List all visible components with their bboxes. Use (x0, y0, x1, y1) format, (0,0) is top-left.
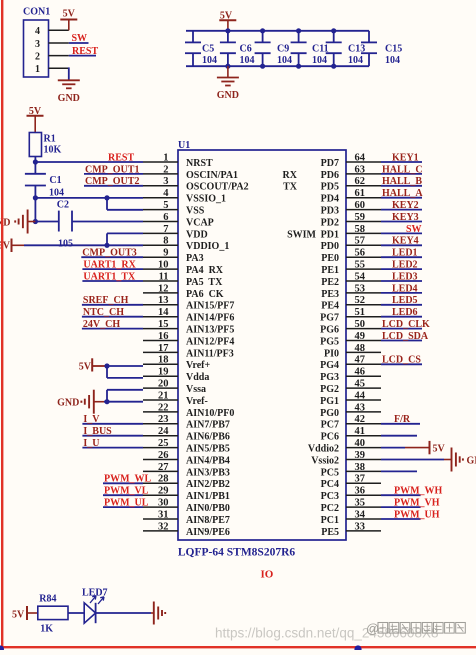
svg-text:NRST: NRST (186, 158, 213, 169)
svg-text:GND: GND (57, 398, 79, 409)
svg-text:17: 17 (158, 343, 169, 354)
svg-text:21: 21 (158, 390, 169, 401)
U1 pin 62 PD5 (321, 176, 381, 193)
wire LED7 to ground (96, 612, 151, 614)
ground GND at LED row (151, 602, 165, 625)
svg-text:VSS: VSS (186, 206, 205, 217)
U1 pin 61 PD4 (321, 188, 381, 205)
svg-text:C2: C2 (57, 200, 69, 211)
wire VSS net to U1 pin 4 (35, 197, 143, 199)
power 5V at capacitor bank (219, 11, 236, 31)
svg-text:PG5: PG5 (320, 336, 339, 347)
svg-text:R1: R1 (44, 134, 56, 145)
svg-text:C5: C5 (202, 44, 214, 55)
svg-text:NTC_CH: NTC_CH (83, 307, 124, 318)
U1 pin 39 Vssio2 (311, 450, 381, 467)
svg-text:LCD_CLK: LCD_CLK (382, 319, 430, 330)
svg-text:I_BUS: I_BUS (83, 426, 112, 437)
svg-text:LED6: LED6 (392, 307, 418, 318)
U1 pin 40 Vddio2 (308, 438, 381, 455)
U1 pin 25 AIN5/PB5 (143, 438, 230, 455)
svg-text:9: 9 (163, 248, 168, 259)
svg-text:22: 22 (158, 402, 169, 413)
wire net NTC_CH to U1 pin 14 (82, 316, 143, 318)
svg-text:31: 31 (158, 509, 169, 520)
wire from U1 pin 41 (381, 435, 417, 437)
svg-text:57: 57 (355, 236, 366, 247)
svg-text:HALL_A: HALL_A (382, 188, 423, 199)
wire net SW from CON1 pin 3 (69, 42, 89, 44)
svg-text:GND: GND (467, 456, 476, 467)
wire net KEY1 from U1 pin 64 (381, 161, 422, 163)
U1 pin 46 PG3 (320, 367, 381, 384)
U1 pin 13 AIN15/PF7 (143, 295, 234, 312)
svg-text:2: 2 (35, 51, 40, 62)
svg-text:LED4: LED4 (392, 283, 418, 294)
U1 pin 17 AIN11/PF3 (143, 343, 234, 360)
svg-text:C9: C9 (277, 44, 289, 55)
svg-text:LCD_SDA: LCD_SDA (382, 331, 429, 342)
power 5V at U1 pin 40 Vddio2 (381, 441, 446, 455)
svg-text:PD0: PD0 (321, 241, 339, 252)
svg-text:Vddio2: Vddio2 (308, 444, 339, 455)
wire net SREF_CH to U1 pin 13 (82, 304, 143, 306)
wire R1 to node REST (34, 157, 36, 163)
svg-text:PD2: PD2 (321, 217, 339, 228)
svg-text:TX: TX (283, 182, 298, 193)
svg-text:33: 33 (355, 521, 366, 532)
svg-text:SREF_CH: SREF_CH (83, 295, 129, 306)
svg-text:53: 53 (355, 283, 366, 294)
wire net LCD_CLK from U1 pin 50 (381, 328, 422, 330)
decorative watermark juejin (366, 621, 465, 636)
svg-text:I_U: I_U (83, 438, 99, 449)
svg-text:VDD: VDD (186, 229, 208, 240)
U1 pin 33 PE5 (321, 521, 381, 538)
svg-text:54: 54 (355, 271, 366, 282)
U1 pin 20 Vssa (143, 379, 206, 396)
power 5V above R1 (27, 106, 44, 132)
svg-text:Vdda: Vdda (186, 372, 209, 383)
U1 pin 63 PD6 (321, 164, 381, 181)
svg-text:PG1: PG1 (320, 396, 339, 407)
svg-text:C15: C15 (385, 44, 402, 55)
wire net LED2 from U1 pin 55 (381, 268, 422, 270)
capacitor C13 104 (326, 31, 366, 66)
U1 pin 7 VDD (143, 224, 208, 241)
svg-text:Vssio2: Vssio2 (311, 455, 339, 466)
svg-text:59: 59 (355, 212, 366, 223)
sheet border bottom edge (0, 646, 476, 648)
wire net HALL_A from U1 pin 61 (381, 197, 422, 199)
svg-text:PG2: PG2 (320, 384, 339, 395)
U1 pin 34 PC1 (321, 509, 381, 526)
svg-text:PC5: PC5 (321, 467, 339, 478)
svg-text:104: 104 (277, 55, 292, 66)
svg-text:I_V: I_V (83, 414, 100, 425)
wire top rail of capacitor bank (186, 30, 369, 32)
wire bottom rail of capacitor bank (186, 65, 369, 67)
svg-text:AIN0/PB0: AIN0/PB0 (186, 503, 230, 514)
svg-text:Vref+: Vref+ (186, 360, 211, 371)
svg-text:1: 1 (35, 64, 40, 75)
wire net LED1 from U1 pin 56 (381, 256, 422, 258)
svg-text:5V: 5V (63, 9, 76, 20)
svg-text:VSSIO_1: VSSIO_1 (186, 194, 226, 205)
svg-text:PA3: PA3 (186, 253, 204, 264)
svg-text:25: 25 (158, 438, 169, 449)
U1 pin 47 PG4 (320, 355, 381, 372)
svg-text:RX: RX (283, 170, 298, 181)
svg-text:KEY2: KEY2 (392, 200, 419, 211)
svg-text:Vssa: Vssa (186, 384, 206, 395)
U1 pin 26 AIN4/PB4 (143, 450, 230, 467)
U1 pin 50 PG6 (320, 319, 381, 336)
wire net UART1_RX to U1 pin 10 (82, 268, 143, 270)
wire net CMP_OUT1 to U1 pin 2 (84, 173, 143, 175)
wire GND to U1 pin 21 (104, 401, 143, 403)
U1 pin 64 PD7 (321, 152, 381, 169)
svg-text:104: 104 (348, 55, 363, 66)
U1 pin 45 PG2 (320, 379, 381, 396)
svg-text:GND: GND (217, 90, 239, 101)
wire net PWM_WL to U1 pin 28 (103, 482, 143, 484)
resistor R1 10K (29, 133, 61, 157)
svg-text:PA5 TX: PA5 TX (186, 277, 223, 288)
U1 pin 21 Vref- (143, 390, 208, 407)
wire net LED4 from U1 pin 53 (381, 292, 422, 294)
U1 pin 24 AIN6/PB6 (143, 426, 230, 443)
svg-text:AIN14/PF6: AIN14/PF6 (186, 313, 234, 324)
svg-text:GND: GND (58, 93, 80, 104)
U1 pin 22 AIN10/PF0 (143, 402, 234, 419)
wire net KEY3 from U1 pin 59 (381, 221, 422, 223)
svg-text:52: 52 (355, 295, 366, 306)
svg-text:UART1_RX: UART1_RX (83, 260, 136, 271)
wire branch to U1 pin 19 Vdda (107, 366, 143, 378)
svg-text:5V: 5V (433, 444, 446, 455)
svg-text:24V_CH: 24V_CH (83, 319, 120, 330)
power 5V at LED row (12, 606, 38, 621)
wire net I_V to U1 pin 23 (82, 423, 143, 425)
wire net UART1_TX to U1 pin 11 (82, 280, 143, 282)
svg-text:Vref-: Vref- (186, 396, 208, 407)
svg-text:KEY3: KEY3 (392, 212, 419, 223)
U1 pin 60 PD3 (321, 200, 381, 217)
U1 pin 8 VDDIO_1 (143, 236, 229, 253)
svg-text:C1: C1 (49, 175, 61, 186)
svg-text:PI0: PI0 (324, 348, 339, 359)
wire net CMP_OUT3 to U1 pin 9 (81, 256, 143, 258)
wire net CMP_OUT2 to U1 pin 3 (84, 185, 143, 187)
svg-text:3: 3 (35, 39, 40, 50)
U1 pin 19 Vdda (143, 367, 209, 384)
svg-text:61: 61 (355, 188, 366, 199)
U1 pin 58 PD1 (321, 224, 381, 241)
svg-text:PG4: PG4 (320, 360, 339, 371)
svg-text:10K: 10K (44, 145, 62, 156)
svg-text:15: 15 (158, 319, 169, 330)
svg-text:CMP_OUT3: CMP_OUT3 (82, 248, 136, 259)
svg-text:27: 27 (158, 462, 169, 473)
svg-text:46: 46 (355, 367, 366, 378)
U1 pin 15 AIN13/PF5 (143, 319, 234, 336)
svg-text:HALL_C: HALL_C (382, 164, 423, 175)
svg-text:PG7: PG7 (320, 313, 339, 324)
svg-text:KEY1: KEY1 (392, 152, 419, 163)
svg-text:8: 8 (163, 236, 168, 247)
power 5V at left edge (0, 239, 24, 253)
svg-text:PA4 RX: PA4 RX (186, 265, 224, 276)
svg-text:48: 48 (355, 343, 366, 354)
svg-text:AIN10/PF0: AIN10/PF0 (186, 408, 234, 419)
svg-text:3: 3 (163, 176, 168, 187)
U1 pin 9 PA3 (143, 248, 204, 265)
svg-text:LED5: LED5 (392, 295, 418, 306)
capacitor C6 104 (220, 31, 255, 66)
svg-text:PE2: PE2 (321, 277, 339, 288)
svg-text:PG6: PG6 (320, 325, 339, 336)
svg-text:32: 32 (158, 521, 169, 532)
capacitor C2 105 (57, 200, 73, 250)
svg-text:7: 7 (163, 224, 168, 235)
capacitor C5 104 (185, 31, 217, 66)
svg-text:37: 37 (355, 474, 366, 485)
svg-text:PWM_UH: PWM_UH (394, 509, 440, 520)
U1 pin 16 AIN12/PF4 (143, 331, 234, 348)
svg-text:64: 64 (355, 152, 366, 163)
U1 pin 38 PC5 (321, 462, 381, 479)
wire net LCD_CS from U1 pin 47 (381, 363, 422, 365)
svg-text:11: 11 (159, 271, 169, 282)
svg-text:PE3: PE3 (321, 289, 339, 300)
svg-text:35: 35 (355, 498, 366, 509)
svg-text:KEY4: KEY4 (392, 236, 419, 247)
svg-text:20: 20 (158, 379, 169, 390)
wire net HALL_C from U1 pin 63 (381, 173, 422, 175)
svg-text:PE4: PE4 (321, 301, 339, 312)
svg-text:104: 104 (312, 55, 327, 66)
wire net LED3 from U1 pin 54 (381, 280, 422, 282)
svg-text:IO: IO (261, 568, 274, 580)
U1 pin 18 Vref+ (143, 355, 211, 372)
svg-text:36: 36 (355, 486, 366, 497)
svg-text:PD1: PD1 (321, 229, 339, 240)
svg-text:CON1: CON1 (23, 7, 50, 18)
svg-text:2: 2 (163, 164, 168, 175)
svg-text:50: 50 (355, 319, 366, 330)
svg-text:41: 41 (355, 426, 366, 437)
U1 pin 5 VSS (143, 200, 205, 217)
wire net PWM_WH from U1 pin 36 (381, 494, 421, 496)
svg-text:PWM_WL: PWM_WL (104, 474, 152, 485)
svg-text:26: 26 (158, 450, 169, 461)
wire net I_U to U1 pin 25 (82, 447, 143, 449)
U1 pin 12 PA6 CK (143, 283, 224, 300)
U1 pin 32 AIN9/PE6 (143, 521, 230, 538)
svg-text:62: 62 (355, 176, 366, 187)
ground GND at U1 pin 21 Vref- (57, 390, 107, 414)
power 5V at U1 pin 18 Vref+ (79, 358, 105, 372)
svg-text:PC4: PC4 (321, 479, 339, 490)
svg-text:42: 42 (355, 414, 366, 425)
U1 pin 10 PA4 RX (143, 260, 224, 277)
U1 pin 30 AIN0/PB0 (143, 498, 230, 515)
capacitor C15 104 (361, 31, 402, 66)
wire R84 to LED7 (68, 612, 84, 614)
svg-text:LCD_CS: LCD_CS (382, 355, 421, 366)
wire net REST from CON1 pin 2 (69, 55, 96, 57)
svg-text:REST: REST (108, 152, 134, 163)
svg-text:PC1: PC1 (321, 515, 339, 526)
node ground junction (33, 219, 38, 224)
wire 5V to U1 pin 18 (105, 365, 144, 367)
svg-text:PG3: PG3 (320, 372, 339, 383)
svg-text:5V: 5V (12, 610, 25, 621)
svg-text:AIN2/PB2: AIN2/PB2 (186, 479, 230, 490)
wire C2 to U1 pin 6 VCAP (72, 221, 143, 223)
svg-text:F/R: F/R (394, 414, 411, 425)
svg-text:30: 30 (158, 498, 169, 509)
wire net I_BUS to U1 pin 24 (82, 435, 143, 437)
svg-text:PD4: PD4 (321, 194, 339, 205)
wire C1 node down to ground node (34, 198, 36, 222)
U1 pin 3 OSCOUT/PA2 (143, 176, 249, 193)
svg-text:10: 10 (158, 260, 169, 271)
power 5V at CON1 pin 4 (60, 9, 77, 31)
svg-text:29: 29 (158, 486, 169, 497)
svg-text:PC6: PC6 (321, 432, 339, 443)
capacitor C9 104 (255, 31, 292, 66)
svg-text:45: 45 (355, 379, 366, 390)
svg-text:39: 39 (355, 450, 366, 461)
wire net LED5 from U1 pin 52 (381, 304, 422, 306)
U1 pin 51 PG7 (320, 307, 381, 324)
wire ground node to C2 (35, 221, 58, 223)
U1 pin 43 PG0 (320, 402, 381, 419)
svg-text:AIN13/PF5: AIN13/PF5 (186, 325, 234, 336)
ground GND at CON1 (58, 80, 80, 104)
U1 pin 41 PC6 (321, 426, 381, 443)
ground GND at U1 pin 39 Vssio2 (381, 448, 476, 472)
svg-text:44: 44 (355, 390, 366, 401)
resistor R84 1K (38, 594, 68, 635)
svg-text:34: 34 (355, 509, 366, 520)
U1 pin 55 PE1 (321, 260, 381, 277)
svg-text:LED1: LED1 (392, 248, 418, 259)
svg-text:OSCIN/PA1: OSCIN/PA1 (186, 170, 238, 181)
svg-text:AIN6/PB6: AIN6/PB6 (186, 432, 230, 443)
svg-text:AIN3/PB3: AIN3/PB3 (186, 467, 230, 478)
junction dot bottom left corner (0, 646, 4, 653)
connector CON1 (23, 7, 69, 78)
svg-text:C6: C6 (240, 44, 252, 55)
svg-text:104: 104 (49, 188, 64, 199)
wire CON1 pin 1 to ground (68, 67, 70, 80)
svg-text:SW: SW (406, 224, 422, 235)
svg-text:AIN15/PF7: AIN15/PF7 (186, 301, 234, 312)
svg-text:14: 14 (158, 307, 169, 318)
wire net SW from U1 pin 58 (381, 232, 422, 234)
U1 pin 2 OSCIN/PA1 (143, 164, 238, 181)
ground GND at left edge (0, 210, 35, 234)
junction on VSS wire (104, 195, 109, 200)
svg-text:PC7: PC7 (321, 420, 339, 431)
wire branch to U1 pin 20 Vssa (107, 390, 143, 402)
wire net KEY4 from U1 pin 57 (381, 244, 422, 246)
svg-text:38: 38 (355, 462, 366, 473)
U1 pin 49 PG5 (320, 331, 381, 348)
svg-text:SWIM: SWIM (287, 229, 316, 240)
svg-text:4: 4 (163, 188, 169, 199)
svg-text:OSCOUT/PA2: OSCOUT/PA2 (186, 182, 249, 193)
sheet border left edge (1, 0, 3, 649)
U1 pin 37 PC4 (321, 474, 381, 491)
svg-text:PC2: PC2 (321, 503, 339, 514)
U1 pin 35 PC2 (321, 498, 381, 515)
node junction below C1 (VSS net) (33, 195, 38, 200)
svg-text:13: 13 (158, 295, 169, 306)
U1 pin 28 AIN2/PB2 (143, 474, 230, 491)
svg-text:AIN5/PB5: AIN5/PB5 (186, 444, 230, 455)
U1 pin 52 PE4 (321, 295, 381, 312)
wire net PWM_UL to U1 pin 30 (103, 506, 143, 508)
U1 pin 27 AIN3/PB3 (143, 462, 230, 479)
svg-text:HALL_B: HALL_B (382, 176, 422, 187)
wire net 24V_CH to U1 pin 15 (82, 328, 143, 330)
svg-text:LQFP-64 STM8S207R6: LQFP-64 STM8S207R6 (178, 547, 295, 559)
wire net KEY2 from U1 pin 60 (381, 209, 422, 211)
svg-text:4: 4 (35, 26, 40, 37)
U1 pin 53 PE3 (321, 283, 381, 300)
U1 pin 29 AIN1/PB1 (143, 486, 230, 503)
U1 pin 42 PC7 (321, 414, 381, 431)
junction dots on capacitor rails (225, 28, 336, 69)
svg-text:19: 19 (158, 367, 169, 378)
svg-text:@: @ (366, 621, 379, 636)
wire net PWM_VH from U1 pin 35 (381, 506, 421, 508)
wire net LED6 from U1 pin 51 (381, 316, 422, 318)
svg-text:51: 51 (355, 307, 366, 318)
svg-text:1K: 1K (40, 624, 53, 635)
svg-text:47: 47 (355, 355, 366, 366)
svg-text:PA6 CK: PA6 CK (186, 289, 224, 300)
svg-text:1: 1 (163, 152, 168, 163)
wire net REST to U1 pin 1 (35, 161, 143, 163)
svg-text:63: 63 (355, 164, 366, 175)
svg-text:43: 43 (355, 402, 366, 413)
svg-text:AIN9/PE6: AIN9/PE6 (186, 527, 230, 538)
svg-text:PWM_WH: PWM_WH (394, 486, 443, 497)
svg-text:104: 104 (385, 55, 400, 66)
U1 pin 44 PG1 (320, 390, 381, 407)
svg-text:PD5: PD5 (321, 182, 339, 193)
svg-text:CMP_OUT1: CMP_OUT1 (85, 164, 139, 175)
ground GND at capacitor bank (217, 66, 239, 101)
U1 pin 59 PD2 (321, 212, 381, 229)
U1 pin 31 AIN8/PE7 (143, 509, 230, 526)
wire net HALL_B from U1 pin 62 (381, 185, 422, 187)
svg-text:5: 5 (163, 200, 168, 211)
svg-text:PWM_VH: PWM_VH (394, 498, 440, 509)
wire net F/R from U1 pin 42 (381, 423, 420, 425)
svg-text:AIN12/PF4: AIN12/PF4 (186, 336, 234, 347)
wire 5V rail to U1 pin 8 (24, 244, 143, 246)
svg-text:CMP_OUT2: CMP_OUT2 (85, 176, 139, 187)
U1 pin 1 NRST (143, 152, 213, 169)
svg-text:5V: 5V (79, 362, 92, 373)
wire net PWM_UH from U1 pin 34 (381, 518, 421, 520)
